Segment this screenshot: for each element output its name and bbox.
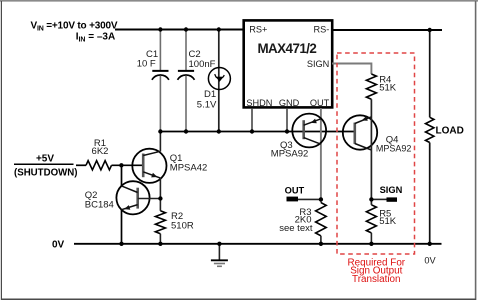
zener diode D1 5.1V xyxy=(197,30,231,132)
svg-text:SIGN: SIGN xyxy=(307,59,329,69)
svg-text:IIN = –3A: IIN = –3A xyxy=(76,32,116,44)
svg-text:RS-: RS- xyxy=(313,24,329,34)
svg-text:MPSA42: MPSA42 xyxy=(170,162,208,173)
wire R5 to 0V xyxy=(370,233,372,244)
wire Q2 emitter down to 0V xyxy=(121,210,123,244)
terminal OUT xyxy=(285,185,321,201)
transistor Q1 MPSA42 xyxy=(132,149,207,183)
svg-text:MPSA92: MPSA92 xyxy=(376,143,412,153)
resistor R2 510R xyxy=(155,211,193,234)
transistor Q4 MPSA92 xyxy=(343,115,412,153)
svg-text:OUT: OUT xyxy=(285,185,305,195)
net label +5V (SHUTDOWN) xyxy=(14,154,78,179)
annotation box: required for sign output translation xyxy=(337,53,415,285)
transistor Q2 BC184 xyxy=(85,181,150,214)
wire R3 to 0V xyxy=(320,236,322,244)
wire Q1 emitter down to R2 node xyxy=(159,178,161,211)
svg-text:GND: GND xyxy=(279,98,300,108)
resistor LOAD xyxy=(426,117,464,142)
wire R4 through Q4 down to SIGN node xyxy=(370,99,372,205)
svg-text:LOAD: LOAD xyxy=(436,126,464,137)
capacitor C1 xyxy=(137,30,169,132)
wire mid rail (GND rail to Q3/Q4 bases) xyxy=(160,131,355,133)
capacitor C2 xyxy=(178,30,216,132)
wire VIN top rail xyxy=(115,29,244,31)
svg-text:RS+: RS+ xyxy=(249,24,267,34)
wire OUT pin vertical (gray, through Q3) xyxy=(320,108,322,203)
svg-text:MPSA92: MPSA92 xyxy=(271,149,309,160)
wire RS- to load top xyxy=(332,29,442,31)
wire R1 to node A / Q1 base xyxy=(112,164,144,166)
svg-text:0V: 0V xyxy=(52,239,65,250)
wire node A down to Q2 xyxy=(121,165,123,186)
wire load column bottom xyxy=(429,143,431,244)
svg-text:100nF: 100nF xyxy=(189,59,216,70)
svg-text:BC184: BC184 xyxy=(85,199,114,210)
svg-text:51K: 51K xyxy=(379,216,397,227)
wire SIGN pin (gray) xyxy=(332,64,371,75)
wire +5V to R1 xyxy=(76,164,86,166)
svg-text:MAX471/2: MAX471/2 xyxy=(257,41,316,56)
svg-text:+5V: +5V xyxy=(36,154,54,165)
resistor R5 51K xyxy=(366,205,396,233)
svg-text:SHDN: SHDN xyxy=(246,98,272,108)
svg-text:Translation: Translation xyxy=(352,274,400,285)
wire load column top xyxy=(429,30,431,117)
resistor R3 2K0 see text xyxy=(279,203,326,236)
wire Q1 collector up to mid rail xyxy=(159,132,161,152)
svg-text:SIGN: SIGN xyxy=(380,185,403,195)
wire R2 to 0V xyxy=(159,234,161,244)
resistor R1 6K2 xyxy=(86,138,112,170)
svg-text:(SHUTDOWN): (SHUTDOWN) xyxy=(14,168,78,179)
transistor Q3 MPSA92 xyxy=(271,114,326,160)
wire Q2 base to R2 node xyxy=(138,198,161,200)
svg-text:6K2: 6K2 xyxy=(92,146,109,157)
wire GND pin stub xyxy=(286,108,288,132)
svg-text:see text: see text xyxy=(279,223,313,234)
wire SHDN pin stub xyxy=(251,108,253,132)
svg-text:51K: 51K xyxy=(379,83,397,94)
svg-text:510R: 510R xyxy=(171,220,194,231)
resistor R4 51K xyxy=(366,74,396,99)
svg-text:5.1V: 5.1V xyxy=(197,100,217,111)
terminal SIGN xyxy=(371,185,402,202)
svg-text:0V: 0V xyxy=(424,256,436,266)
op-amp/IC U1 MAX471/2 xyxy=(244,20,333,107)
svg-text:D1: D1 xyxy=(204,89,216,100)
svg-text:10 F: 10 F xyxy=(137,59,156,70)
ground xyxy=(211,244,228,266)
wire 0V bottom rail xyxy=(74,243,442,245)
svg-text:OUT: OUT xyxy=(310,98,330,108)
